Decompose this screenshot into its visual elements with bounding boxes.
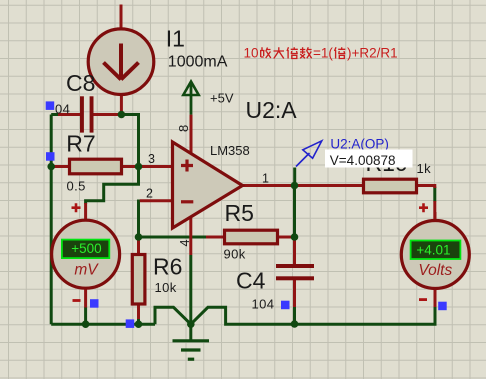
svg-text:2: 2: [146, 187, 153, 201]
voltmeter mV: [52, 220, 120, 288]
voltmeter plus marker: [419, 203, 428, 212]
wire: R5 right lead: [278, 236, 294, 239]
wire: pin 3 lead: [140, 165, 173, 168]
annotation glyph shu: [300, 47, 312, 58]
wire: C4 bottom green segment: [293, 307, 296, 325]
svg-text:LM358: LM358: [210, 143, 250, 158]
annotation glyph bei 2: [335, 47, 346, 58]
svg-text:C8: C8: [66, 70, 95, 96]
wire: R5/R6 node to R5 left lead: [139, 236, 208, 239]
wire: ground star right branch and bottom right rail: [191, 306, 435, 324]
wire: node I1/C8 to feedback column: [121, 115, 138, 167]
junction node R7 left: [47, 163, 55, 171]
svg-text:90k: 90k: [224, 247, 246, 262]
marker square on bottom rail: [126, 319, 135, 328]
wire: R10 elbow red segment to voltmeter plus: [433, 201, 436, 220]
wire: R10 right elbow green segment: [433, 187, 436, 202]
svg-text:04: 04: [55, 102, 70, 117]
svg-text:4: 4: [178, 240, 192, 247]
probe value box: [325, 150, 413, 168]
wire: bottom left rail: [51, 323, 155, 326]
svg-text:C4: C4: [236, 268, 266, 294]
junction node mV minus: [82, 320, 90, 328]
svg-text:I1: I1: [166, 26, 185, 52]
svg-text:1k: 1k: [417, 161, 432, 176]
wire: pin 8 lead: [190, 115, 193, 154]
wire: mV meter plus lead: [84, 203, 87, 220]
probe arrow U2:A(OP): [296, 141, 322, 167]
svg-text:+500: +500: [71, 241, 101, 256]
wire: voltmeter plus lead: [434, 212, 437, 220]
wire: R7 right lead: [122, 165, 137, 168]
junction node pin 3: [135, 163, 143, 171]
svg-text:mV: mV: [74, 262, 99, 279]
resistor R5: [225, 230, 278, 244]
svg-text:Volts: Volts: [418, 262, 452, 279]
svg-text:10: 10: [244, 46, 259, 61]
junction node output pin1: [291, 182, 299, 190]
svg-text:R5: R5: [225, 200, 254, 226]
wire: pin 1 lead to R10 left lead: [243, 184, 364, 187]
wire: pin2 elbow down to R5/R6 node: [137, 200, 140, 238]
wire: I1 bottom lead: [120, 96, 123, 113]
junction node I1/C8: [118, 111, 126, 119]
wire: left vertical rail from C8 elbow down to bottom rail: [50, 115, 53, 325]
marker square near C8 value: [46, 101, 55, 110]
wire: R6 bottom lead: [137, 304, 140, 319]
capacitor C8: [80, 96, 94, 132]
marker square near R7 left node: [46, 152, 55, 161]
junction node C4 bottom: [291, 320, 299, 328]
svg-text:U2:A(OP): U2:A(OP): [330, 136, 389, 151]
junction node R5/R6/pin2: [135, 233, 143, 241]
wire: pin 4 lead: [189, 218, 192, 255]
wire: probe stub above output node: [293, 168, 296, 186]
junction ground node: [187, 320, 195, 328]
voltmeter minus marker: [419, 298, 427, 301]
wire: C4 top lead: [293, 239, 296, 265]
svg-text:R6: R6: [153, 254, 182, 280]
wire: output node down to R5/C4 node: [293, 186, 296, 238]
svg-text:8: 8: [176, 125, 191, 132]
wire: voltmeter minus lead: [434, 290, 437, 308]
marker square near voltmeter minus: [438, 302, 447, 311]
svg-text:1000mA: 1000mA: [168, 54, 228, 71]
svg-text:V=4.00878: V=4.00878: [330, 153, 396, 168]
resistor R6: [132, 255, 145, 305]
voltmeter Volts: [401, 221, 469, 289]
marker square near mV minus: [90, 299, 99, 308]
wire: C8 left elbow: [51, 113, 59, 116]
wire: R6 bottom green segment: [137, 319, 140, 325]
mV meter plus marker: [72, 203, 81, 212]
wire: I1 top stub: [120, 5, 123, 29]
wire: mV meter minus green segment: [84, 307, 87, 324]
wire: R7 left lead: [53, 165, 70, 168]
resistor R7: [70, 159, 122, 174]
current source I1: [88, 29, 154, 95]
capacitor C4: [276, 264, 314, 280]
annotation glyph da: [274, 47, 285, 58]
wire: mV meter minus lead: [84, 290, 87, 308]
wire: C8 left lead: [58, 113, 80, 116]
svg-text:0.5: 0.5: [67, 179, 86, 194]
wire: C8 right lead to node: [93, 113, 119, 116]
svg-text:104: 104: [252, 296, 275, 311]
junction node R5/C4: [291, 233, 299, 241]
annotation glyph fang: [260, 47, 271, 58]
ground: [173, 324, 210, 359]
svg-text:)+R2/R1: )+R2/R1: [347, 46, 398, 61]
svg-text:R7: R7: [66, 130, 95, 156]
svg-text:+4.01: +4.01: [416, 242, 450, 257]
svg-text:1: 1: [262, 172, 269, 186]
wire: node 3 to mV meter plus: [86, 167, 139, 205]
svg-text:=1(: =1(: [313, 46, 333, 61]
svg-text:3: 3: [148, 152, 155, 166]
mV meter minus marker: [73, 299, 81, 302]
wire: R5 left red lead: [206, 236, 225, 239]
wire: R10 right lead: [417, 186, 435, 189]
marker square near C4 bottom: [281, 301, 290, 310]
wire: C4 bottom lead: [293, 280, 296, 308]
svg-text:U2:A: U2:A: [246, 97, 298, 123]
op-amp U2:A: [173, 142, 243, 228]
svg-text:+5V: +5V: [210, 91, 234, 106]
svg-text:10k: 10k: [155, 280, 177, 295]
junction node R6 bottom: [135, 320, 143, 328]
wire: R6 top lead: [137, 239, 140, 255]
annotation glyph bei: [287, 47, 298, 58]
wire: ground star left branch: [155, 307, 191, 324]
power +5V: [183, 82, 198, 115]
wire: pin4 down to ground node: [189, 255, 192, 324]
wire: pin 2 lead: [140, 199, 173, 202]
